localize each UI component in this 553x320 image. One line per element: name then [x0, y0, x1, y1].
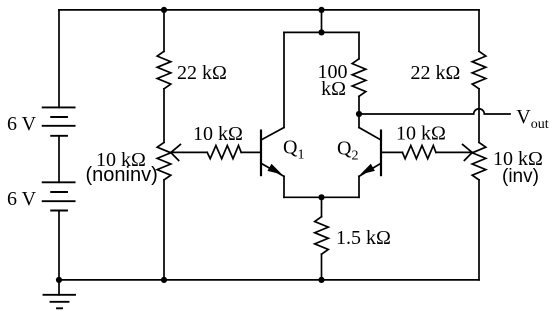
node emitters: [318, 194, 324, 200]
wire Vout with hop over right branch: [359, 109, 510, 114]
wire top rail: [59, 9, 479, 11]
svg-text:Vout: Vout: [516, 106, 548, 132]
node Q2 collector Vout: [356, 111, 362, 117]
battery B2 6V: [43, 182, 75, 210]
svg-text:Q1: Q1: [283, 137, 304, 163]
wire Q2 emitter down: [358, 176, 360, 197]
resistor R6 22 kOhm: [472, 51, 486, 89]
wire Q1 collector up: [283, 32, 285, 127]
wire R3 to Q1 base: [241, 151, 261, 153]
transistor Q1: [261, 128, 284, 177]
resistor R5 1.5 kOhm: [315, 217, 329, 255]
wire battery 2 to bottom rail: [58, 211, 60, 280]
wire node to R5: [321, 197, 323, 216]
wire Q1 emitter to node: [284, 196, 322, 198]
wire right branch rail to R6: [478, 10, 480, 51]
wire Q2 base to R8: [381, 151, 402, 153]
node collector bar: [318, 29, 324, 35]
svg-text:10 kΩ: 10 kΩ: [193, 123, 243, 145]
svg-text:22 kΩ: 22 kΩ: [177, 62, 227, 84]
node top-center: [318, 7, 324, 13]
wire top rail stub: [321, 10, 323, 33]
svg-text:1.5 kΩ: 1.5 kΩ: [336, 227, 391, 249]
wire Q2 collector up: [358, 114, 360, 128]
pot R2 wiper arrow: [171, 145, 181, 161]
transistor Q2: [359, 128, 381, 177]
wire pot R2 to bottom rail: [163, 180, 165, 280]
svg-text:22 kΩ: 22 kΩ: [411, 62, 461, 84]
resistor R4 100 kOhm: [352, 32, 366, 114]
battery B1 6V: [43, 107, 75, 135]
wire R1 to pot R2: [163, 89, 165, 143]
svg-text:kΩ: kΩ: [321, 78, 346, 100]
svg-text:6 V: 6 V: [7, 188, 37, 210]
wire left branch rail to R1: [163, 10, 165, 51]
wire collector cross bar: [284, 31, 359, 33]
node pot R2 bottom: [161, 277, 167, 283]
svg-text:(inv): (inv): [502, 166, 539, 187]
svg-text:6 V: 6 V: [7, 113, 37, 135]
wire left vertical top rail to battery 1: [58, 10, 60, 108]
wire bottom rail: [59, 279, 479, 281]
wire R5 to bottom rail: [321, 254, 323, 280]
svg-text:10 kΩ: 10 kΩ: [396, 123, 446, 145]
wire Q2 emitter to node: [322, 196, 360, 198]
resistor R3 10 kOhm horizontal: [207, 146, 241, 159]
wire Q1 emitter down: [283, 176, 285, 197]
wire pot R7 to bottom rail: [478, 180, 480, 280]
node R5 bottom: [318, 277, 324, 283]
ground: [44, 280, 76, 308]
wire R6 to pot R7: [478, 89, 480, 143]
node top-left branch: [161, 7, 167, 13]
resistor R8 10 kOhm horizontal: [402, 146, 436, 159]
node ground tap: [56, 277, 62, 283]
pot R7 wiper arrow: [463, 145, 473, 161]
potentiometer R7 10 kOhm inv: [472, 142, 486, 180]
wire wiper to R3: [171, 151, 207, 153]
wire between batteries: [58, 136, 60, 183]
svg-text:(noninv): (noninv): [86, 164, 158, 186]
svg-text:Q2: Q2: [337, 138, 358, 164]
wire R8 to wiper: [436, 151, 472, 153]
potentiometer R2 10 kOhm noninv: [157, 142, 171, 180]
resistor R1 22 kOhm: [157, 51, 171, 89]
